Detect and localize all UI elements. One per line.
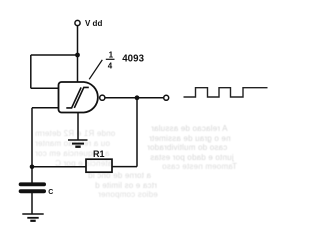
svg-text:1: 1 — [109, 50, 114, 59]
svg-text:4: 4 — [108, 62, 113, 71]
svg-text:R1: R1 — [93, 149, 105, 159]
svg-text:C: C — [48, 189, 53, 196]
svg-text:4093: 4093 — [122, 53, 144, 64]
svg-text:V dd: V dd — [85, 19, 102, 28]
